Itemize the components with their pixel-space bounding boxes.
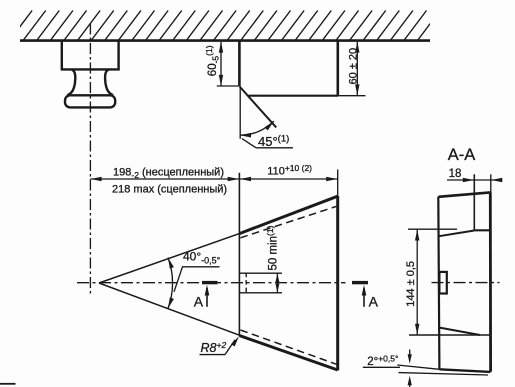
section upper inner horizontal xyxy=(474,229,490,231)
section right edge xyxy=(489,192,492,371)
50 min reference lines xyxy=(240,272,282,274)
50 min dimension xyxy=(276,273,278,293)
section plane mark right xyxy=(352,281,368,284)
support surface line xyxy=(20,39,430,42)
taper reference line xyxy=(399,373,489,375)
section top edge xyxy=(438,192,490,196)
right edge extension xyxy=(490,174,492,192)
dimension 60-5(1) xyxy=(217,42,239,86)
svg-text:A-A: A-A xyxy=(448,146,476,164)
head bracket right edge xyxy=(336,41,339,96)
uncoupling knob outline xyxy=(62,41,119,108)
section lower face line / 144 bottom extension xyxy=(409,334,490,336)
svg-text:A: A xyxy=(194,293,204,309)
horizontal axis centerline xyxy=(77,282,346,284)
40 deg angle arc xyxy=(168,258,173,309)
bottom edge extension xyxy=(397,365,439,369)
coupled nose dashed vertical xyxy=(245,273,247,294)
footnote mark xyxy=(0,383,16,385)
dimension 198 / 218 xyxy=(90,178,238,180)
section plane mark left xyxy=(202,281,218,284)
coupled position lower dashed xyxy=(241,330,337,364)
2 deg arrows xyxy=(409,350,411,357)
lock pocket rectangle xyxy=(439,272,446,294)
section left edge xyxy=(438,197,439,369)
head lower slant thick xyxy=(240,336,338,370)
svg-text:144 ± 0,5: 144 ± 0,5 xyxy=(405,261,417,307)
dimension 110 xyxy=(240,178,337,180)
section upper inner diagonal xyxy=(439,231,474,237)
head bracket bottom edge xyxy=(249,95,338,97)
head big end right edge xyxy=(336,196,339,370)
section view centerline xyxy=(432,282,500,284)
section lower inner diagonal xyxy=(440,328,480,335)
svg-text:198-2 (несцепленный): 198-2 (несцепленный) xyxy=(113,166,224,180)
section top small face line xyxy=(408,228,457,230)
section bottom edge xyxy=(439,369,490,372)
svg-text:A: A xyxy=(369,294,379,310)
coupled position upper dashed xyxy=(241,206,337,238)
head bracket left edge xyxy=(238,41,241,86)
cone lower edge thin xyxy=(99,283,239,335)
guard face left vertical xyxy=(238,173,240,336)
head upper slant thick xyxy=(239,196,337,233)
head big end right edge extension xyxy=(337,170,339,197)
svg-text:18: 18 xyxy=(449,168,462,180)
45 deg angle arc xyxy=(240,121,274,135)
45 deg chamfer line xyxy=(240,87,277,128)
svg-text:60 ± 20: 60 ± 20 xyxy=(348,48,360,85)
cone upper edge thin xyxy=(99,234,239,283)
bottom edge extension for dim xyxy=(338,95,366,97)
vertical reference below corner xyxy=(239,87,241,139)
dimension 60 +- 20 xyxy=(356,42,358,95)
svg-text:218 max (сцепленный): 218 max (сцепленный) xyxy=(112,183,227,195)
hatched support wall xyxy=(9,11,454,42)
dimension 144 xyxy=(416,229,418,334)
knob vertical centerline xyxy=(89,24,91,294)
section inner rib edge xyxy=(473,174,475,230)
